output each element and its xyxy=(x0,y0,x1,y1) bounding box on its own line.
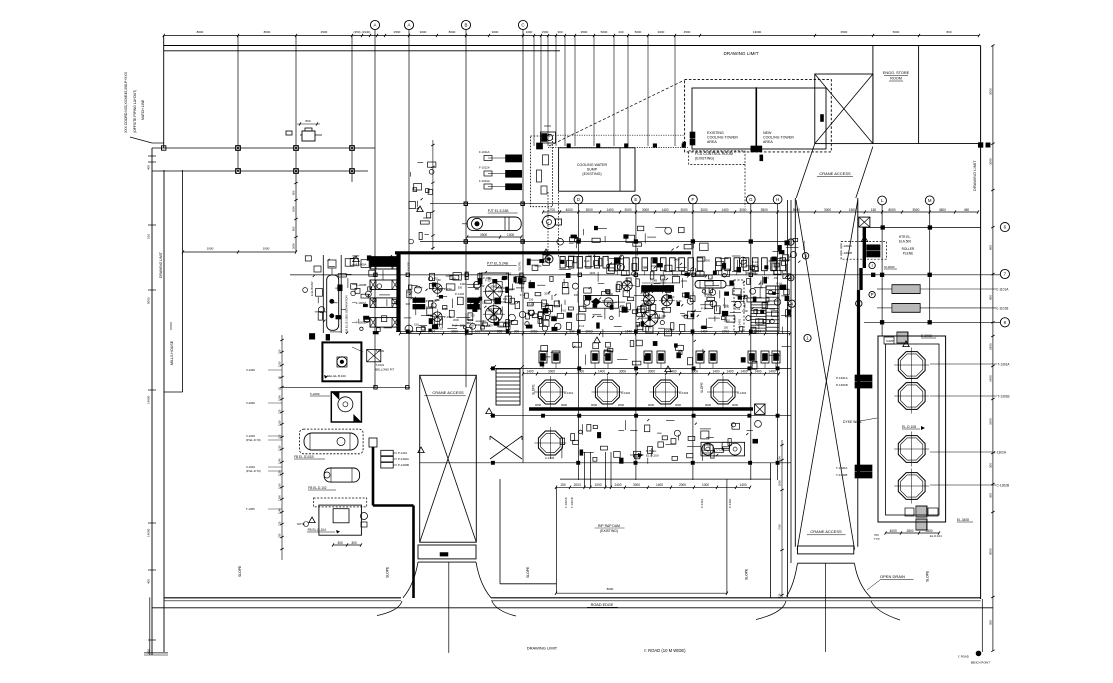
svg-text:H: H xyxy=(776,197,779,202)
svg-text:4000: 4000 xyxy=(566,208,573,212)
svg-text:P-14: P-14 xyxy=(776,281,782,285)
vertical x727 xyxy=(726,479,728,594)
svg-text:400: 400 xyxy=(147,579,151,584)
svg-text:300: 300 xyxy=(499,325,504,329)
paved boundary y479 xyxy=(560,478,771,480)
stairs west xyxy=(496,369,520,405)
crane west flare arcs xyxy=(403,562,418,598)
vessel FB EL.D104 xyxy=(319,505,362,535)
svg-text:EXISTING: EXISTING xyxy=(707,131,724,135)
svg-text:SLOPE: SLOPE xyxy=(518,262,522,271)
svg-text:F-10: F-10 xyxy=(661,280,667,284)
svg-text:8000: 8000 xyxy=(197,30,204,34)
svg-text:C-1302: C-1302 xyxy=(621,391,631,395)
bottom left ticks xyxy=(149,597,151,655)
svg-text:6500: 6500 xyxy=(841,30,848,34)
rack mid components xyxy=(584,295,619,308)
gridline y227.5 xyxy=(864,227,981,229)
svg-text:700: 700 xyxy=(278,434,282,439)
paved notch lines xyxy=(499,479,501,584)
svg-text:E.EL/B.MW: E.EL/B.MW xyxy=(310,281,314,296)
tank stub verticals xyxy=(584,452,586,487)
pump pair C-13X xyxy=(701,442,745,456)
svg-text:ROOM: ROOM xyxy=(890,77,902,81)
svg-text:3500: 3500 xyxy=(581,30,588,34)
svg-text:150: 150 xyxy=(774,276,779,280)
svg-text:150: 150 xyxy=(414,323,419,327)
rack gridline y331.3 xyxy=(396,330,790,332)
T-1300 pair xyxy=(855,465,872,471)
svg-text:SLOPE: SLOPE xyxy=(526,566,530,578)
svg-text:A: A xyxy=(374,23,377,28)
svg-text:DRAWING LIMIT: DRAWING LIMIT xyxy=(972,160,977,191)
svg-text:2500: 2500 xyxy=(394,30,401,34)
svg-text:150: 150 xyxy=(482,301,487,305)
svg-text:3000: 3000 xyxy=(739,208,746,212)
svg-text:2003: 2003 xyxy=(574,483,581,487)
svg-text:BENCH POINT: BENCH POINT xyxy=(971,661,990,665)
svg-text:1400: 1400 xyxy=(721,208,728,212)
svg-text:DRAWING LIMIT: DRAWING LIMIT xyxy=(723,51,758,56)
svg-text:300: 300 xyxy=(465,321,470,325)
svg-text:P: P xyxy=(871,292,874,297)
svg-text:1400: 1400 xyxy=(598,370,605,374)
svg-text:P-14: P-14 xyxy=(643,307,649,311)
crane access west box xyxy=(420,375,477,542)
svg-text:T-1301A: T-1301A xyxy=(564,497,568,508)
svg-text:HTR EL.: HTR EL. xyxy=(899,235,911,239)
svg-text:800: 800 xyxy=(292,190,296,195)
svg-text:3000: 3000 xyxy=(420,30,427,34)
svg-text:2800: 2800 xyxy=(925,529,932,533)
svg-text:1000: 1000 xyxy=(702,483,709,487)
equipment cluster west column xyxy=(338,274,346,277)
svg-text:(EXISTING): (EXISTING) xyxy=(695,157,714,161)
small bubble I xyxy=(869,262,875,268)
small bubble K xyxy=(856,300,862,306)
svg-text:3000: 3000 xyxy=(548,370,555,374)
svg-text:P-1402A: P-1402A xyxy=(398,457,409,461)
svg-text:300: 300 xyxy=(643,265,648,269)
svg-text:3000: 3000 xyxy=(292,206,296,212)
svg-text:COOLING WATER: COOLING WATER xyxy=(577,163,608,167)
svg-text:SUMP: SUMP xyxy=(587,168,598,172)
svg-text:CRANE ACCESS: CRANE ACCESS xyxy=(432,390,464,395)
svg-text:300: 300 xyxy=(470,313,475,317)
svg-text:1400: 1400 xyxy=(753,264,759,268)
svg-text:F-10: F-10 xyxy=(438,326,444,330)
pump station top xyxy=(541,132,556,143)
dyke wall bold line xyxy=(863,227,866,268)
svg-text:PJT EL.5.24B: PJT EL.5.24B xyxy=(487,262,509,266)
cooling water sump xyxy=(559,148,635,191)
cooling tower area dashed boundary xyxy=(685,80,832,152)
grid bubble A1 xyxy=(370,20,379,29)
svg-text:F: F xyxy=(692,197,695,202)
svg-text:3000: 3000 xyxy=(680,208,687,212)
svg-text:EL.D.104: EL.D.104 xyxy=(930,534,942,538)
svg-text:3000: 3000 xyxy=(624,208,631,212)
svg-text:M-2000: M-2000 xyxy=(884,265,895,269)
svg-text:2000: 2000 xyxy=(769,307,775,311)
svg-text:3000: 3000 xyxy=(700,208,707,212)
svg-text:150: 150 xyxy=(529,298,534,302)
svg-text:F-10: F-10 xyxy=(561,309,567,313)
svg-text:F-1011A: F-1011A xyxy=(479,150,490,154)
gridline y387 left xyxy=(282,386,410,388)
svg-text:COOLING TOWER: COOLING TOWER xyxy=(763,136,794,140)
svg-text:3500: 3500 xyxy=(761,208,768,212)
svg-text:300: 300 xyxy=(528,284,533,288)
pipe rack bold left xyxy=(396,252,400,332)
svg-text:3000: 3000 xyxy=(633,483,640,487)
svg-text:3000: 3000 xyxy=(989,158,993,165)
exchanger F-1012 xyxy=(506,170,522,177)
svg-text:1000: 1000 xyxy=(278,395,282,401)
crane access corridor edges xyxy=(787,200,789,597)
svg-text:4500: 4500 xyxy=(684,30,691,34)
dim line y252 left xyxy=(183,251,296,253)
svg-text:2000: 2000 xyxy=(706,294,712,298)
svg-text:3000: 3000 xyxy=(492,30,499,34)
rack gridline y274.8 xyxy=(290,274,790,276)
tank leader T-1301B xyxy=(930,395,997,397)
svg-text:9000: 9000 xyxy=(989,548,993,555)
svg-text:P-14: P-14 xyxy=(639,321,645,325)
svg-text:1500: 1500 xyxy=(542,30,549,34)
tank farm dim bottom xyxy=(886,532,940,534)
equipment cluster pipe rack xyxy=(478,273,482,280)
grid bubble D xyxy=(574,195,583,204)
svg-text:RIP RAP DAM: RIP RAP DAM xyxy=(598,524,620,528)
svg-text:DRAWING LIMIT: DRAWING LIMIT xyxy=(527,646,558,651)
bold pipe path SW xyxy=(369,438,377,447)
svg-text:B: B xyxy=(465,23,468,28)
svg-text:300: 300 xyxy=(451,276,456,280)
gridline squares x466 x523 xyxy=(464,202,467,205)
svg-text:MATCH LINE: MATCH LINE xyxy=(141,99,145,120)
trench dashed extension xyxy=(547,192,549,258)
svg-text:300: 300 xyxy=(662,314,667,318)
svg-text:2000: 2000 xyxy=(752,272,758,276)
svg-text:F-10: F-10 xyxy=(550,315,556,319)
svg-text:3400: 3400 xyxy=(989,375,993,382)
filter C-1101A xyxy=(892,285,920,294)
equipment cluster pre-rack xyxy=(655,227,666,229)
svg-text:A: A xyxy=(408,23,411,28)
svg-text:P-14: P-14 xyxy=(475,307,481,311)
exchanger F-1011 xyxy=(506,155,522,162)
cooling tower divider xyxy=(755,87,757,147)
svg-text:1000: 1000 xyxy=(594,483,601,487)
grid bubble F xyxy=(689,195,698,204)
svg-text:SLOPE: SLOPE xyxy=(926,570,930,582)
svg-text:1400: 1400 xyxy=(712,370,719,374)
svg-text:300: 300 xyxy=(435,298,440,302)
tank leader C-1302B xyxy=(930,484,996,486)
svg-text:F-10: F-10 xyxy=(764,276,770,280)
svg-text:T-1300A: T-1300A xyxy=(836,466,847,470)
dotted boundary lines xyxy=(548,134,685,136)
svg-text:1100: 1100 xyxy=(278,420,282,426)
svg-text:1100: 1100 xyxy=(278,361,282,367)
crane access neck xyxy=(796,144,815,198)
tank farm inner wall xyxy=(886,344,940,515)
svg-text:3000: 3000 xyxy=(705,403,712,407)
svg-text:600: 600 xyxy=(989,620,993,625)
svg-text:4500: 4500 xyxy=(939,208,946,212)
svg-text:800: 800 xyxy=(989,245,993,250)
small bubble J xyxy=(788,239,794,245)
stack of three P-1400 xyxy=(381,450,393,456)
svg-text:1100: 1100 xyxy=(278,483,282,489)
svg-text:SLOPE: SLOPE xyxy=(238,565,242,577)
svg-text:1400: 1400 xyxy=(486,289,492,293)
dim col x433 xyxy=(432,140,434,250)
grid bubble C xyxy=(518,20,527,29)
pipe bar end box xyxy=(755,404,765,414)
svg-text:(1940): (1940) xyxy=(362,30,371,34)
tank leader T-1301A xyxy=(930,363,997,365)
svg-text:4000: 4000 xyxy=(890,529,897,533)
left dim ticks xyxy=(148,155,156,157)
svg-text:4500: 4500 xyxy=(321,30,328,34)
svg-text:1400: 1400 xyxy=(661,208,668,212)
svg-text:1464: 1464 xyxy=(700,329,707,333)
svg-text:T-1302A: T-1302A xyxy=(994,451,1007,455)
svg-text:TYP.: TYP. xyxy=(874,537,880,541)
svg-text:750: 750 xyxy=(278,409,282,414)
svg-text:SLOPE: SLOPE xyxy=(802,241,806,250)
svg-text:ROAD EDGE: ROAD EDGE xyxy=(591,603,614,607)
pump house block xyxy=(481,273,509,331)
small bubble P xyxy=(869,291,875,297)
svg-text:P-1404: P-1404 xyxy=(455,292,464,296)
svg-text:1400: 1400 xyxy=(674,257,680,261)
crane corridor X diagonals xyxy=(796,200,855,550)
svg-text:C-1302B: C-1302B xyxy=(997,484,1010,488)
svg-text:2800: 2800 xyxy=(989,343,993,350)
svg-text:3000: 3000 xyxy=(824,208,831,212)
svg-text:1500: 1500 xyxy=(849,208,856,212)
svg-text:750: 750 xyxy=(278,521,282,526)
svg-text:1000: 1000 xyxy=(207,247,214,251)
svg-text:150: 150 xyxy=(620,304,625,308)
junction squares on y146 xyxy=(567,144,570,147)
svg-text:5000: 5000 xyxy=(793,208,800,212)
svg-text:300: 300 xyxy=(557,30,562,34)
grid bubble 8 xyxy=(1000,318,1009,327)
drawing limit right border xyxy=(980,46,982,600)
filter leader C-1101B xyxy=(920,307,996,309)
svg-text:5000: 5000 xyxy=(893,30,900,34)
valve station V-1 xyxy=(302,131,315,141)
svg-text:P-1301A: P-1301A xyxy=(836,376,848,380)
svg-text:E: E xyxy=(634,197,637,202)
svg-text:1700: 1700 xyxy=(548,208,555,212)
equipment cluster below chain pairs xyxy=(539,351,547,363)
dim chain y334 xyxy=(400,333,790,335)
drawing limit top border xyxy=(164,45,981,47)
svg-text:P-1402: P-1402 xyxy=(728,499,732,508)
svg-text:P-1401: P-1401 xyxy=(398,451,407,455)
svg-text:3500: 3500 xyxy=(480,233,487,237)
svg-text:ℂ ROAD: ℂ ROAD xyxy=(958,655,969,659)
svg-text:1150: 1150 xyxy=(278,445,282,451)
svg-text:3000: 3000 xyxy=(561,403,568,407)
vessel FB EL.D101B xyxy=(300,429,364,454)
svg-text:3000: 3000 xyxy=(586,208,593,212)
x296 dim ticks xyxy=(294,182,297,184)
svg-text:2000: 2000 xyxy=(607,292,613,296)
crane corridor bottom box xyxy=(798,546,854,554)
svg-text:700: 700 xyxy=(278,349,282,354)
grid bubble A xyxy=(404,20,413,29)
svg-text:OPEN DRAIN: OPEN DRAIN xyxy=(880,574,905,579)
svg-text:150: 150 xyxy=(438,287,443,291)
grid bubble M xyxy=(925,196,934,205)
cooling tower basin xyxy=(692,88,826,149)
svg-text:3000: 3000 xyxy=(535,403,542,407)
svg-text:5000: 5000 xyxy=(601,30,608,34)
svg-text:DRAWING LIMIT: DRAWING LIMIT xyxy=(159,252,163,278)
svg-text:P-1301B: P-1301B xyxy=(836,383,848,387)
dashed band E-1401 xyxy=(734,280,744,332)
svg-text:F-2000: F-2000 xyxy=(310,392,320,396)
equipment cluster corridor crossing xyxy=(782,261,786,265)
svg-text:FCU CONTROL ROOM: FCU CONTROL ROOM xyxy=(695,152,733,156)
svg-text:C-1305: C-1305 xyxy=(545,456,555,460)
svg-text:1400: 1400 xyxy=(740,370,747,374)
svg-text:3000: 3000 xyxy=(292,243,296,249)
svg-text:150: 150 xyxy=(560,483,566,487)
horizontal grid line y170 xyxy=(152,170,368,172)
bellows pit T-1 xyxy=(367,350,381,362)
svg-text:C-1303: C-1303 xyxy=(679,391,689,395)
exchanger F-1013 xyxy=(506,184,522,190)
svg-text:300: 300 xyxy=(661,307,666,311)
pump C-1305 lower xyxy=(538,431,562,455)
svg-text:T-1301B: T-1301B xyxy=(570,497,574,508)
svg-text:3000: 3000 xyxy=(591,403,598,407)
svg-text:1400: 1400 xyxy=(606,208,613,212)
svg-text:SUMP: SUMP xyxy=(886,339,894,343)
svg-text:300: 300 xyxy=(406,302,411,306)
svg-text:ELA.500: ELA.500 xyxy=(899,240,911,244)
svg-text:PLENE: PLENE xyxy=(903,252,913,256)
pump C-1301B xyxy=(595,380,619,404)
svg-text:8000: 8000 xyxy=(264,30,271,34)
svg-text:C-1101B: C-1101B xyxy=(996,306,1008,310)
separator vessel column xyxy=(322,255,324,333)
piping trench dashed xyxy=(531,136,553,207)
svg-text:5000: 5000 xyxy=(147,297,151,304)
mixer M-1 box xyxy=(322,342,361,381)
svg-text:(P EL.D.70): (P EL.D.70) xyxy=(246,438,261,442)
svg-text:J: J xyxy=(790,240,792,245)
pad X southwest xyxy=(490,436,522,459)
svg-text:300: 300 xyxy=(351,541,357,545)
svg-text:M: M xyxy=(928,198,932,203)
svg-text:P-14: P-14 xyxy=(452,323,458,327)
grid verticals cluster xyxy=(533,36,535,147)
svg-text:(250): (250) xyxy=(353,30,360,34)
corridor flare to road xyxy=(787,563,798,596)
svg-text:1000: 1000 xyxy=(507,233,514,237)
svg-text:3000: 3000 xyxy=(577,370,584,374)
svg-text:P-14: P-14 xyxy=(579,324,585,328)
svg-text:2000: 2000 xyxy=(460,323,466,327)
svg-text:150: 150 xyxy=(480,284,485,288)
svg-text:AREA: AREA xyxy=(707,140,717,144)
svg-text:3000: 3000 xyxy=(451,329,458,333)
svg-text:8000: 8000 xyxy=(449,30,456,34)
svg-text:3000: 3000 xyxy=(732,403,739,407)
svg-text:P-14: P-14 xyxy=(552,327,558,331)
svg-text:1400: 1400 xyxy=(426,313,432,317)
svg-text:2000: 2000 xyxy=(490,284,496,288)
svg-text:SLOPE: SLOPE xyxy=(407,262,411,271)
svg-text:1400: 1400 xyxy=(526,370,533,374)
svg-text:P-14: P-14 xyxy=(641,292,647,296)
svg-text:PJT. EL.: PJT. EL. xyxy=(646,449,657,453)
pump C-1301A xyxy=(538,380,562,404)
svg-text:F-1300A: F-1300A xyxy=(841,244,853,248)
svg-text:150: 150 xyxy=(871,208,877,212)
cooling tower edge tabs xyxy=(690,132,695,138)
svg-text:FB EL.D101B: FB EL.D101B xyxy=(294,455,314,459)
svg-text:150: 150 xyxy=(488,307,493,311)
svg-text:2000: 2000 xyxy=(544,291,550,295)
warning triangles xyxy=(543,249,549,255)
svg-text:SLOPE: SLOPE xyxy=(745,568,749,580)
svg-text:V-2000: V-2000 xyxy=(246,401,255,405)
svg-text:1400: 1400 xyxy=(656,483,663,487)
equipment cluster upper left xyxy=(409,172,411,177)
road edge north line xyxy=(164,597,401,599)
svg-text:1400: 1400 xyxy=(589,271,595,275)
svg-text:NEW: NEW xyxy=(763,131,772,135)
svg-text:563: 563 xyxy=(497,329,503,333)
crane west bottom box xyxy=(418,545,476,559)
svg-text:3600: 3600 xyxy=(989,418,993,425)
right dim line xyxy=(992,46,994,651)
svg-text:DYKE WALL: DYKE WALL xyxy=(843,420,862,424)
gridline y274.7 xyxy=(290,274,1000,276)
tank T-1301A xyxy=(898,352,925,379)
svg-text:1140: 1140 xyxy=(278,508,282,514)
svg-text:5000: 5000 xyxy=(635,30,642,34)
svg-text:1140: 1140 xyxy=(278,458,282,464)
F-1300 pair dashed box xyxy=(841,242,886,260)
gridline y203.7 xyxy=(430,203,780,205)
svg-text:P-14: P-14 xyxy=(735,307,741,311)
P-1301 pair xyxy=(855,375,872,381)
svg-text:100: 100 xyxy=(147,234,151,239)
svg-text:C: C xyxy=(521,23,524,28)
grid bubble B xyxy=(461,20,470,29)
svg-text:(P EL.D.70): (P EL.D.70) xyxy=(246,469,261,473)
svg-text:F-10: F-10 xyxy=(723,304,729,308)
tank farm outer wall xyxy=(878,336,946,522)
svg-text:300: 300 xyxy=(989,493,993,498)
mills house strip xyxy=(182,170,184,392)
svg-text:C-1101A: C-1101A xyxy=(996,288,1009,292)
svg-text:2000: 2000 xyxy=(453,318,459,322)
corridor bubble 4 xyxy=(788,300,795,307)
svg-text:2000: 2000 xyxy=(778,480,782,486)
left dim col x282 xyxy=(281,335,283,560)
